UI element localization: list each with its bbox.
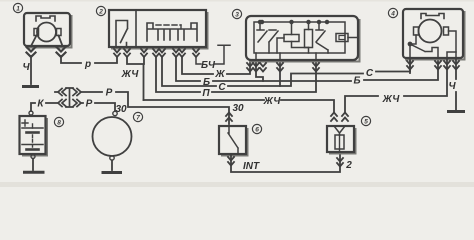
node dots on relay3 top rail	[261, 21, 264, 24]
motor4 brushes	[414, 27, 419, 35]
motor4 terminal chevrons	[407, 61, 459, 70]
battery positive terminal	[29, 111, 33, 115]
badge 7	[133, 112, 142, 121]
fuse5 lead join	[334, 126, 345, 135]
badge 8	[54, 117, 63, 126]
fuse element F2	[335, 135, 344, 149]
motor1 park-switch bracket	[36, 16, 55, 21]
generator ground post	[110, 156, 114, 160]
motor4 right brush lead	[449, 31, 457, 58]
svg-text:Ж: Ж	[214, 69, 225, 80]
svg-text:БЧ: БЧ	[201, 60, 216, 71]
R1 leads	[277, 22, 309, 53]
badge 5	[361, 116, 370, 125]
wire р : motor1 to switch2	[61, 56, 117, 63]
svg-text:К: К	[37, 99, 44, 110]
svg-text:ЖЧ: ЖЧ	[382, 94, 401, 105]
wiper motor 4 enclosure	[403, 9, 465, 60]
switch2 cell divider	[135, 10, 137, 47]
switch2 terminal chevrons	[114, 49, 199, 57]
resistor R1 (horizontal)	[284, 35, 299, 42]
battery ground	[31, 155, 35, 159]
motor1 brushes	[34, 29, 39, 36]
svg-text:Ч: Ч	[22, 62, 30, 73]
wire Р row2 to generator 7	[81, 103, 115, 111]
badge 6	[252, 124, 261, 133]
svg-text:2: 2	[98, 9, 103, 16]
svg-text:Р: Р	[86, 99, 93, 110]
svg-text:6: 6	[255, 127, 259, 134]
svg-text:3: 3	[235, 12, 239, 19]
svg-text:ЖЧ: ЖЧ	[263, 96, 282, 107]
svg-text:INT: INT	[243, 161, 260, 172]
relay3 plug element	[336, 34, 348, 42]
svg-text:1: 1	[16, 6, 20, 13]
wiper motor 1 enclosure	[24, 13, 72, 48]
motor4 cam switch	[410, 44, 438, 58]
terminal chevrons motor1 left	[27, 47, 36, 57]
generator 7 body	[93, 111, 132, 160]
switch2 toggle lever	[116, 21, 128, 48]
switch2 linkage (dashed)	[156, 24, 181, 26]
ground under motor4	[449, 110, 464, 113]
badge 4	[388, 8, 397, 17]
badge 3	[232, 9, 241, 18]
wire ЖЧ main vertical	[127, 57, 144, 100]
switch unit 2 enclosure	[109, 10, 208, 49]
wire motor4 T1 to С	[409, 60, 411, 73]
switch6 blade	[228, 126, 238, 154]
relay3 right contact	[316, 22, 328, 53]
ground under motor1	[24, 85, 38, 88]
wire К battery to connector	[31, 103, 57, 111]
wire switch6 to fuse5 bottom	[231, 154, 340, 172]
switch6 bottom chevrons	[228, 157, 234, 166]
motor4 park-switch bracket	[421, 14, 444, 19]
wire Ж	[182, 57, 250, 74]
fuse unit 5 enclosure	[327, 126, 356, 154]
branch Б to relay3	[256, 60, 263, 81]
generator ground	[111, 160, 113, 170]
badge 1	[13, 3, 22, 12]
branch С to relay3	[279, 60, 281, 86]
battery cell plates	[22, 127, 43, 129]
interval switch 6 enclosure	[219, 126, 248, 156]
wire БЧ with T tab	[196, 45, 230, 64]
svg-text:р: р	[84, 59, 91, 70]
motor4 left brush lead and node	[410, 35, 416, 58]
battery plus mark	[22, 120, 28, 126]
relay3 terminal drops	[256, 53, 316, 60]
motor4 armature	[419, 20, 442, 43]
svg-text:С: С	[366, 68, 374, 79]
motor1 armature	[37, 23, 56, 42]
switch2 contact comb	[147, 23, 197, 41]
relay unit 3 enclosure	[246, 16, 360, 62]
relay3 left breaker contacts	[257, 22, 278, 53]
wire Ч to ground	[30, 56, 32, 84]
svg-text:5: 5	[364, 119, 368, 126]
resistor R2 (vertical)	[305, 30, 313, 48]
svg-text:4: 4	[390, 11, 395, 18]
battery 8	[20, 111, 48, 156]
wire С long with jog	[162, 57, 410, 86]
connector P double row	[58, 88, 81, 107]
switch6 top chevrons	[226, 113, 232, 122]
fuse5 bottom chevrons	[337, 158, 343, 167]
fuse5 top chevrons	[331, 113, 348, 122]
wire Ч motor4 to ground	[455, 60, 457, 110]
svg-text:7: 7	[136, 115, 140, 122]
svg-text:Б: Б	[353, 76, 360, 87]
svg-text:П: П	[202, 88, 210, 99]
relay3 terminal chevrons	[247, 63, 319, 72]
terminal chevrons motor1 right	[57, 47, 66, 57]
generator terminal 30 post	[113, 111, 117, 115]
svg-text:2: 2	[345, 160, 352, 171]
wire П	[156, 57, 316, 92]
svg-text:8: 8	[57, 120, 61, 127]
wire Р row1 to int switch 6	[55, 92, 229, 124]
motor1 brush leads	[31, 36, 63, 47]
R2 leads	[308, 22, 310, 53]
badge 2	[96, 6, 105, 15]
wire Б long	[176, 57, 438, 81]
relay3 inner frame	[254, 22, 345, 53]
svg-text:Ч: Ч	[448, 81, 456, 92]
svg-text:Р: Р	[106, 88, 113, 99]
svg-text:30: 30	[232, 103, 244, 114]
wire ЖЧ right : fuse5 to motor4	[345, 60, 447, 112]
svg-text:ЖЧ: ЖЧ	[121, 69, 140, 80]
wire ЖЧ horizontal to fuse 5	[144, 100, 335, 112]
